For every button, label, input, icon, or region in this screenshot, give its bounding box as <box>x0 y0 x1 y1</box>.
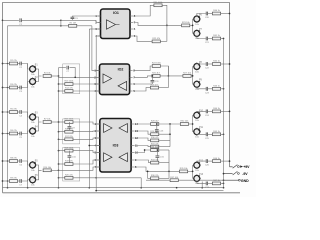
amp A of IO3 <box>104 124 112 133</box>
wire into pots <box>193 164 194 166</box>
pin 5 <box>130 35 133 37</box>
pin 7 <box>97 166 100 168</box>
wire row B to -V bus <box>221 133 224 135</box>
potentiometer <box>194 127 204 138</box>
svg-text:R27 10k: R27 10k <box>183 73 192 75</box>
V- bus <box>95 36 97 191</box>
resistor <box>212 86 220 91</box>
junction <box>176 187 178 189</box>
wire row B to -V bus <box>221 38 224 40</box>
feedback cap IO2 <box>151 76 153 80</box>
wire into pots <box>193 66 194 68</box>
junction <box>7 87 9 89</box>
resistor <box>180 121 189 126</box>
svg-text:R22 47k: R22 47k <box>152 38 161 40</box>
svg-text:R6 47k: R6 47k <box>10 130 18 132</box>
svg-text:R14 47k: R14 47k <box>65 88 74 90</box>
svg-text:R33 100k: R33 100k <box>150 147 160 149</box>
wire IO3 pin4 to bus <box>89 145 100 147</box>
svg-text:R29 100k: R29 100k <box>150 131 160 133</box>
amp A of IO2 <box>103 74 112 83</box>
row pin11 <box>134 146 150 147</box>
capacitor <box>205 110 210 118</box>
resistor <box>69 23 77 28</box>
cluster box IO2 input <box>63 64 80 94</box>
junction <box>7 133 9 135</box>
capacitor <box>19 159 23 167</box>
capacitor <box>19 179 23 187</box>
resistor <box>9 130 17 135</box>
junction <box>223 133 225 135</box>
wire row A to output bus <box>221 110 230 112</box>
junction <box>229 111 231 113</box>
resistor <box>64 147 74 152</box>
cluster box IO3 lower input <box>63 148 80 182</box>
feedback cap <box>156 124 158 129</box>
junction <box>58 83 60 85</box>
resistor to pin2 <box>59 131 65 133</box>
junction <box>27 187 29 189</box>
right bus to pots <box>192 115 194 132</box>
wire pot wipers to mix resistor <box>36 165 42 170</box>
wire to potentiometer <box>22 131 30 134</box>
resistor <box>65 161 74 166</box>
junction <box>157 149 159 151</box>
wire pot B to row <box>197 133 206 135</box>
pin 6 <box>97 159 100 161</box>
pin 8 <box>131 166 134 168</box>
resistor <box>212 131 220 136</box>
op-amp IO2 <box>100 64 130 95</box>
svg-text:R47 1k: R47 1k <box>213 180 221 182</box>
capacitor <box>205 132 210 140</box>
junction <box>229 160 231 162</box>
resistor <box>150 131 160 136</box>
junction <box>192 171 194 173</box>
svg-text:R40 1k: R40 1k <box>213 10 221 12</box>
svg-text:R5 47k: R5 47k <box>10 109 18 111</box>
wire pot A wiper to row <box>196 110 198 113</box>
junction <box>2 111 4 113</box>
resistor <box>64 119 74 124</box>
junction <box>58 169 60 171</box>
svg-text:R34 47k: R34 47k <box>151 159 160 161</box>
resistor to pin4 <box>59 90 65 92</box>
capacitor <box>205 87 210 95</box>
capacitor <box>19 132 23 140</box>
lower resistor row <box>59 177 65 179</box>
vertical bus x=7.5 <box>7 26 9 188</box>
junction <box>152 75 154 77</box>
resistor <box>151 143 160 148</box>
resistor <box>182 22 191 27</box>
pin 3 <box>97 83 100 85</box>
resistor <box>212 35 220 40</box>
ground bus left of pots <box>27 64 29 188</box>
junction <box>201 187 203 189</box>
resistor <box>43 167 52 172</box>
svg-text:R20 22k: R20 22k <box>65 175 74 177</box>
-9V terminal <box>238 173 240 175</box>
svg-text:R30 47k: R30 47k <box>151 137 160 139</box>
resistor <box>151 175 160 180</box>
resistor <box>65 88 74 93</box>
wire to potentiometer <box>22 64 30 70</box>
wire IO1 output row <box>134 23 182 26</box>
capacitor <box>68 156 77 159</box>
center drop to rail <box>140 178 142 188</box>
pin 7 <box>130 76 133 78</box>
wire into pots <box>193 18 194 20</box>
pin 8 <box>130 15 133 17</box>
GND terminal <box>224 179 239 181</box>
pin 13 <box>131 130 134 132</box>
svg-text:R15 100k: R15 100k <box>64 119 74 121</box>
svg-text:R9 47k: R9 47k <box>10 178 18 180</box>
capacitor <box>155 130 164 133</box>
feedback cap row <box>59 67 66 69</box>
resistor to pin3 <box>59 83 65 85</box>
resistor to pin5 <box>59 150 65 152</box>
junction <box>60 25 62 27</box>
wire mix2 to pin1 <box>50 121 64 123</box>
resistor <box>212 108 220 113</box>
schematic frame bottom border / gnd rail <box>3 192 241 194</box>
resistor <box>150 84 159 89</box>
junction <box>58 150 60 152</box>
lower resistor IO1 <box>134 36 152 41</box>
capacitor <box>66 66 70 74</box>
svg-text:R37 100: R37 100 <box>170 177 179 179</box>
capacitor <box>71 17 79 20</box>
junction <box>2 63 4 65</box>
capacitor <box>205 62 210 70</box>
junction <box>95 177 97 179</box>
pin 11 <box>131 145 134 147</box>
junction <box>7 187 9 189</box>
junction <box>168 75 170 77</box>
lower resistor IO2 <box>134 88 151 91</box>
junction <box>88 187 90 189</box>
wire row B to -V bus <box>221 88 224 90</box>
pin 4 <box>97 90 100 92</box>
capacitor <box>205 159 210 167</box>
resistor <box>212 61 220 66</box>
capacitor <box>68 127 76 130</box>
junction <box>140 187 142 189</box>
potentiometer <box>194 29 203 40</box>
capacitor <box>19 18 23 26</box>
junction <box>2 160 4 162</box>
wire x=91.9 down to IO2 pin1 <box>92 26 100 71</box>
resistor <box>9 60 17 65</box>
junction <box>58 187 60 189</box>
potentiometer <box>30 112 39 123</box>
potentiometer <box>194 14 203 25</box>
resistor <box>151 137 160 142</box>
resistor <box>65 136 74 141</box>
V+ bus <box>88 29 90 188</box>
amp A of IO1 <box>107 20 116 29</box>
switch S2 <box>224 173 233 175</box>
svg-text:R31 22k: R31 22k <box>151 143 160 145</box>
capacitor <box>151 81 160 84</box>
pin 10 <box>131 152 134 154</box>
pin 2 <box>98 22 101 24</box>
svg-text:R23 10k: R23 10k <box>182 22 191 24</box>
resistor <box>212 10 220 15</box>
amp B of IO2 <box>118 81 127 90</box>
svg-text:R44 1k: R44 1k <box>213 108 221 110</box>
wire IO3 out A <box>134 123 150 125</box>
svg-text:R19 47k: R19 47k <box>65 161 74 163</box>
wire mix3 to pin7 <box>50 169 58 171</box>
junction <box>169 133 171 135</box>
resistor <box>151 121 160 126</box>
junction <box>7 180 9 182</box>
vertical bus x=60.9 <box>60 20 62 26</box>
svg-text:R4 10k: R4 10k <box>44 73 52 75</box>
resistor <box>150 147 160 152</box>
pin 2 <box>97 130 100 132</box>
resistor <box>152 73 161 78</box>
wire pot B to row <box>197 181 206 183</box>
-V rail <box>96 190 223 192</box>
svg-text:R13 100k: R13 100k <box>64 81 74 83</box>
wire pot A wiper to row <box>196 63 198 66</box>
cluster box IO3 upper input <box>63 119 80 144</box>
right bus lower <box>168 150 170 178</box>
pin 3 <box>98 28 101 30</box>
junction <box>7 63 9 65</box>
resistor <box>180 168 189 173</box>
row pin12 <box>134 138 150 140</box>
pin 5 <box>97 152 100 154</box>
svg-text:R32 10k: R32 10k <box>181 121 190 123</box>
wire row A to output bus <box>221 160 230 162</box>
svg-text:R8 47k: R8 47k <box>10 158 18 160</box>
wire pin4 row <box>96 35 100 37</box>
pin 5 <box>130 90 133 92</box>
wire to potentiometer <box>22 161 30 165</box>
wire pin6 to cap <box>134 83 153 85</box>
junction <box>169 123 171 125</box>
junction <box>223 38 225 40</box>
svg-text:R35 10k: R35 10k <box>180 168 189 170</box>
wire pot A wiper to row <box>196 161 198 162</box>
junction <box>58 90 60 92</box>
svg-text:R28 4k7: R28 4k7 <box>151 121 160 123</box>
pin 8 <box>130 70 133 72</box>
junction <box>2 87 4 89</box>
right bus upper <box>169 124 171 147</box>
right vertical output bus <box>229 2 231 166</box>
pin 12 <box>131 137 134 139</box>
junction <box>223 183 225 185</box>
svg-text:GND: GND <box>241 179 249 183</box>
resistor <box>152 38 161 43</box>
wire row A to output bus <box>221 13 230 15</box>
pin 3 <box>97 137 100 139</box>
capacitor <box>19 86 23 94</box>
row pin9 resistor <box>134 160 150 163</box>
resistor <box>65 128 74 133</box>
svg-text:R26 47k: R26 47k <box>151 84 160 86</box>
resistor to pin6 <box>59 163 65 165</box>
svg-text:R42 1k: R42 1k <box>213 61 221 63</box>
bus x=223.5 <box>223 39 225 188</box>
junction <box>7 111 9 113</box>
potentiometer <box>194 161 204 172</box>
pin 4 <box>98 35 101 37</box>
capacitor <box>19 110 23 118</box>
junction <box>144 149 146 151</box>
+V rail <box>3 187 224 189</box>
potentiometer <box>194 174 204 185</box>
schematic frame left border <box>2 2 4 192</box>
feedback resistor <box>134 131 150 134</box>
resistor <box>212 158 220 163</box>
amp B of IO3 <box>119 124 127 133</box>
capacitor <box>156 156 165 159</box>
junction <box>58 131 60 133</box>
svg-text:P13: P13 <box>199 174 204 176</box>
potentiometer <box>30 64 39 75</box>
wire pin3 row <box>89 28 100 30</box>
junction <box>74 76 76 78</box>
junction <box>2 19 4 21</box>
junction <box>166 25 168 27</box>
svg-text:R24 100k: R24 100k <box>152 63 162 65</box>
pin 7 <box>130 22 133 24</box>
junction <box>58 75 60 77</box>
feedback cap <box>68 122 70 126</box>
pin 9 <box>131 159 134 161</box>
pin 6 <box>130 28 133 30</box>
capacitor <box>205 12 210 20</box>
svg-text:IO3: IO3 <box>113 144 119 148</box>
right bus to pots <box>192 19 194 33</box>
pin 2 <box>97 76 100 78</box>
junction <box>192 75 194 77</box>
resistor <box>170 177 179 182</box>
resistor <box>9 109 17 114</box>
svg-text:R36 22k: R36 22k <box>151 175 160 177</box>
svg-text:R46 1k: R46 1k <box>213 158 221 160</box>
svg-text:IO1: IO1 <box>113 11 119 15</box>
bottom row resistor <box>148 171 151 178</box>
junction <box>229 13 231 15</box>
wire pot B to row <box>197 36 206 38</box>
junction <box>147 171 149 173</box>
svg-text:IO2: IO2 <box>118 68 124 72</box>
resistor <box>9 178 17 183</box>
junction <box>192 25 194 27</box>
pin 1 <box>97 123 100 125</box>
feedback cap <box>156 150 158 155</box>
junction <box>223 187 225 189</box>
junction <box>58 177 60 179</box>
feedback capacitor to pin1 <box>71 19 73 21</box>
wire to potentiometer <box>22 112 30 117</box>
feedback resistor IO2 <box>134 66 152 71</box>
resistor to pin3 <box>59 138 65 140</box>
junction <box>229 63 231 65</box>
amp D of IO3 <box>119 153 127 162</box>
potentiometer <box>30 126 39 137</box>
junction <box>2 180 4 182</box>
+9V terminal <box>238 166 240 168</box>
resistor <box>154 2 164 7</box>
svg-text:R17 22k: R17 22k <box>65 136 74 138</box>
pin 14 <box>131 123 134 125</box>
pin 1 <box>97 70 100 72</box>
svg-text:R1 1M: R1 1M <box>70 23 76 25</box>
junction <box>223 179 225 181</box>
resistor <box>43 119 51 124</box>
svg-text:R7 10k: R7 10k <box>44 119 52 121</box>
gnd return row <box>146 179 166 181</box>
long net from inner corner y=25.8 <box>8 25 69 27</box>
op-amp IO3 <box>100 119 131 173</box>
svg-text:R18 100k: R18 100k <box>64 147 74 149</box>
feedback cap <box>68 151 70 156</box>
wire into pots <box>193 114 194 116</box>
wire to potentiometer <box>22 82 30 88</box>
potentiometer <box>30 77 39 88</box>
potentiometer <box>194 111 204 122</box>
junction <box>58 121 60 123</box>
wire row to center drop <box>96 177 141 179</box>
potentiometer <box>194 62 203 73</box>
svg-text:R43 1k: R43 1k <box>213 86 221 88</box>
junction <box>192 123 194 125</box>
op-amp IO1 <box>101 9 131 39</box>
junction <box>156 123 158 125</box>
resistor <box>64 81 74 86</box>
capacitor <box>19 62 23 70</box>
junction <box>95 190 97 192</box>
svg-text:R21 100k: R21 100k <box>154 2 164 4</box>
wire to potentiometer <box>22 180 30 181</box>
amp C of IO3 <box>104 153 112 162</box>
resistor <box>151 159 160 164</box>
svg-text:R41 1k: R41 1k <box>213 35 221 37</box>
potentiometer <box>194 80 203 91</box>
resistor <box>152 63 162 68</box>
wire row B to -V bus <box>221 182 224 184</box>
wire pot A wiper to row <box>196 14 198 17</box>
wire IO2 output row <box>134 76 152 77</box>
wire pot B to row <box>197 87 206 89</box>
potentiometer <box>30 175 39 186</box>
svg-text:R16 47k: R16 47k <box>65 128 74 130</box>
resistor <box>65 175 74 180</box>
junction <box>60 19 62 21</box>
pin 6 <box>130 83 133 85</box>
left mix bus <box>58 68 60 188</box>
capacitor <box>205 182 210 190</box>
svg-text:R3 47k: R3 47k <box>10 84 18 86</box>
schematic frame top border <box>3 1 230 3</box>
svg-text:+9V: +9V <box>243 165 250 169</box>
svg-text:R45 1k: R45 1k <box>213 131 221 133</box>
svg-text:-9V: -9V <box>242 172 248 176</box>
junction <box>58 163 60 165</box>
pin 4 <box>97 145 100 147</box>
resistor <box>212 180 220 185</box>
right bus to pots <box>192 67 194 85</box>
